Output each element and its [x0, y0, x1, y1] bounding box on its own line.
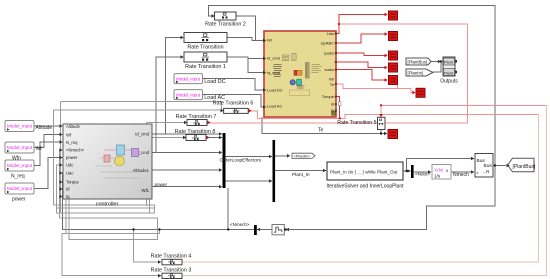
WIRES-RED bright near blocks [337, 15, 388, 119]
wire RT8 out to bar1 [209, 137, 222, 139]
svg-text:power: power [66, 155, 78, 160]
wire vertical feeder RT8 [149, 138, 151, 214]
svg-text:Load DC: Load DC [267, 88, 283, 93]
WIRES-GRAY [34, 6, 506, 230]
wire red block5 bottom tie [397, 85, 399, 89]
svg-text:Uac: Uac [327, 31, 334, 36]
wire red out4 to red block4 [337, 62, 388, 68]
pink Model_Input Load DC [174, 74, 226, 85]
wire torque feedback [63, 182, 67, 234]
svg-text:Nmech: Nmech [453, 172, 469, 178]
wire solver out to ndot selector [404, 170, 411, 172]
wire hairpin pair A (Udc feedback) [54, 165, 155, 213]
wire top feedback loop from bus to Rate Transition 2 [209, 6, 496, 166]
svg-text:Rate Transition 1: Rate Transition 1 [185, 64, 226, 70]
wire hairpin pair B (Nmech controller input) [60, 189, 158, 239]
wire pale RT4 return [182, 115, 538, 262]
wire Altitude1 out to bar1 [153, 169, 220, 171]
svg-text:Rate Transition 6: Rate Transition 6 [213, 101, 254, 107]
wire Wf1 out to bar1 [153, 186, 220, 188]
Outputs block [440, 57, 458, 85]
wire id_cmd to RT input [153, 38, 184, 135]
svg-text:Model_Input: Model_Input [176, 76, 201, 81]
svg-text:...N: ...N [483, 169, 490, 174]
Xdot integrator block [432, 165, 451, 180]
svg-text:<PlantIn>: <PlantIn> [294, 154, 312, 159]
wire nmech input vertical [60, 150, 63, 218]
IterativeSolver block [327, 162, 405, 190]
svg-text:[PlantIn]: [PlantIn] [408, 70, 424, 75]
wire branch down to RT4 [134, 230, 162, 263]
wire bar1 to bar2 [226, 156, 273, 158]
svg-text:Id: Id [331, 102, 334, 107]
svg-text:Torque: Torque [322, 94, 335, 99]
svg-text:Outputs: Outputs [440, 79, 458, 85]
wire RT2 output to Wr input [236, 16, 263, 41]
svg-text:Udc: Udc [66, 163, 73, 168]
wire bottom of x495 down to y206 staircase to ZOH [286, 166, 495, 230]
svg-text:[PlantBus]: [PlantBus] [513, 164, 536, 170]
wire red vertical from Ipabc down to 114.7 with mini box [337, 97, 340, 119]
wire RT1 output to id_cmd input [227, 57, 263, 59]
wire red out2 to red block2 [337, 34, 388, 43]
bar2 mux [273, 140, 276, 202]
wire junction up to bus in1 [407, 159, 475, 172]
wire bar2 to solver [275, 170, 326, 172]
svg-text:Altitude: Altitude [66, 124, 81, 129]
wire ndot selector to Xdot [414, 171, 431, 173]
wire PlantBus From tag to outputs [431, 61, 441, 63]
yellow plant subsystem [264, 31, 336, 117]
pink Model_Input power [5, 183, 34, 203]
svg-text:N_req: N_req [11, 174, 25, 180]
wire RT8 input line [150, 137, 187, 139]
svg-text:Bus: Bus [484, 163, 493, 169]
wire RT6 input line [54, 109, 224, 112]
wire te line [262, 117, 387, 134]
controller subsystem [63, 124, 152, 208]
svg-text:1/s: 1/s [434, 174, 441, 179]
wire red out1 to red block1 [337, 15, 388, 34]
wire red RT7 out long up to top [210, 24, 468, 123]
wire vertical feeder RT7 [146, 123, 148, 207]
WIRES-RED light [210, 24, 547, 123]
svg-text:power: power [155, 182, 168, 187]
wire zoh to bar [257, 229, 272, 231]
svg-text:OuterLoopEffectors: OuterLoopEffectors [220, 158, 262, 164]
svg-text:id_cmd: id_cmd [267, 56, 280, 61]
svg-text:Load AC: Load AC [267, 104, 282, 109]
svg-text:Rate Transition 5: Rate Transition 5 [337, 120, 376, 126]
svg-text:Load DC: Load DC [204, 79, 225, 85]
wire Iq_cmd extension to bar1 [156, 152, 219, 154]
red outport block Icabc [389, 63, 398, 72]
svg-text:Id_cmd: Id_cmd [135, 132, 149, 137]
wire branch down to RT3 [62, 230, 161, 276]
wire iq feedback stub [63, 196, 67, 198]
Rate Transition 7 block [176, 114, 217, 126]
wire red RT6 out segment [249, 111, 258, 119]
ZOH block [272, 225, 287, 235]
svg-text:Wr: Wr [329, 77, 335, 82]
controller thumbnail contents [96, 145, 146, 178]
svg-text:Rate Transition 7: Rate Transition 7 [176, 114, 217, 120]
wire iq_cmd to RT1 input [153, 57, 184, 153]
svg-text:Model_Input: Model_Input [176, 92, 201, 97]
red output blocks column [388, 11, 425, 139]
pink Model_Input Altitude [5, 121, 52, 132]
Rate Transition 8 block [175, 129, 216, 141]
svg-text:IterativeSolver and InnerLoopP: IterativeSolver and InnerLoopPlant [327, 184, 405, 190]
svg-text:Plant: Plant [444, 71, 454, 76]
svg-text:Torque: Torque [66, 180, 79, 185]
mini converter box on red wire [338, 102, 341, 106]
Rate Transition 2 block [205, 12, 246, 28]
svg-text:Icabc: Icabc [324, 67, 334, 72]
wire pink N_req to controller [34, 142, 62, 166]
svg-text:Rate Transition 4: Rate Transition 4 [151, 253, 192, 259]
svg-text:Rate Transition 2: Rate Transition 2 [205, 22, 246, 28]
ARROWS red [207, 13, 416, 140]
wire nmech main y229.5 [62, 173, 254, 230]
wire pink Wf to controller [34, 135, 62, 148]
junction dots [338, 23, 382, 120]
red outport block Uac [389, 11, 398, 20]
svg-text:[PlantBus]: [PlantBus] [408, 59, 428, 64]
wire RT output to Wr input [227, 38, 263, 41]
pink Model_Input N_req [5, 160, 34, 180]
svg-text:Model_Input: Model_Input [7, 186, 33, 191]
PlantBus goto tag right [508, 158, 536, 172]
svg-text:Te: Te [318, 128, 324, 134]
wire red loop RT4 top [258, 115, 539, 119]
wire y208 line [57, 207, 155, 209]
svg-text:Altitude: Altitude [36, 125, 53, 131]
wire pink LoadDC to block [203, 79, 264, 91]
wire red loop RT3 top [381, 104, 547, 106]
svg-text:Wf: Wf [66, 133, 72, 138]
pink Model_Input Wfn [5, 142, 42, 162]
svg-text:Plant: Plant [444, 60, 454, 65]
Rate Transition 5 block vertical [337, 117, 385, 133]
red outport block UpABC [389, 32, 398, 41]
svg-text:Rate Transition 8: Rate Transition 8 [175, 129, 216, 135]
svg-text:Uac: Uac [66, 171, 73, 176]
PlantBus From tag [406, 58, 431, 65]
wire long loadac feeder [61, 102, 222, 111]
wire pink power to controller [34, 158, 62, 189]
svg-text:<Nmech>: <Nmech> [66, 148, 85, 153]
svg-text:controller: controller [96, 202, 119, 208]
wire Xdot to bus in2 [452, 171, 475, 173]
WIRES-LIGHTGRAY long feedback cluster [54, 102, 224, 276]
svg-text:x: x [477, 171, 479, 175]
Ndot bus selector [411, 165, 414, 178]
svg-text:Wf1: Wf1 [142, 188, 150, 193]
wire red into RT5 [380, 105, 382, 115]
wire RT1 junction down to iq_cmd [248, 59, 263, 73]
pink Model_Input Load AC [174, 90, 225, 101]
wire pink Altitude to controller [34, 125, 62, 127]
svg-text:Model_Input: Model_Input [7, 163, 33, 168]
svg-text:Wr: Wr [267, 38, 273, 43]
Rate Transition 1 block [184, 52, 227, 70]
wire bar2 to PlantIn goto [275, 155, 287, 157]
wire red block7 input from yellow Te [337, 84, 416, 93]
wire RT7 input line [147, 122, 188, 124]
svg-text:Model_Input: Model_Input [7, 145, 33, 150]
Nmech bus selector bottom [254, 225, 257, 235]
svg-text:power: power [12, 197, 26, 203]
wire red out5 to red block5 [337, 70, 388, 81]
Bus block [475, 154, 493, 178]
wire y108 down to y204.8 [53, 110, 55, 205]
wire Id_cmd extension to bar1 [166, 133, 220, 135]
svg-text:Load AC: Load AC [204, 95, 225, 101]
svg-text:Rate Transition: Rate Transition [187, 45, 223, 51]
svg-text:N_req: N_req [66, 140, 78, 145]
Rate Transition 3 block [151, 268, 192, 279]
red outport block Te rate [416, 88, 425, 97]
svg-text:Model_Input: Model_Input [7, 124, 33, 129]
svg-text:Wf: Wf [36, 146, 43, 152]
svg-text:Plant_In: Plant_In [292, 172, 310, 178]
Rate Transition block [184, 33, 227, 51]
PlantIn goto tag [292, 153, 315, 159]
Rate Transition 4 block [151, 253, 192, 265]
svg-text:UpABC: UpABC [321, 41, 334, 46]
svg-text:Ipabc: Ipabc [324, 51, 334, 56]
thumbnail icons inside [273, 54, 336, 116]
svg-text:<Nmech>: <Nmech> [230, 222, 250, 227]
Rate Transition 6 block [213, 101, 254, 114]
controller port labels [66, 124, 150, 199]
red outport block Wr [389, 76, 398, 85]
wire bar2 bottom branch down to nmech [227, 188, 229, 230]
svg-text:Rate Transition 3: Rate Transition 3 [151, 268, 192, 274]
bar1 mux OuterLoopEffectors [223, 133, 226, 188]
ARROWS dark [60, 14, 510, 277]
svg-text:Plant_In do { ... } while Pla: Plant_In do { ... } while Plant_Out [330, 170, 398, 175]
PlantIn From tag [406, 69, 433, 76]
port nubs on yellow right edge [335, 33, 337, 112]
svg-text:Xdot: Xdot [434, 168, 444, 173]
wire pink LoadAC to block [203, 95, 264, 108]
red outport block Ipabc [389, 51, 398, 60]
wire red out3 to red block3 [337, 53, 388, 56]
wire pale RT3 return [182, 105, 547, 275]
wire bus out to PlantBus tag [494, 165, 507, 167]
red outport block Te [388, 130, 398, 139]
